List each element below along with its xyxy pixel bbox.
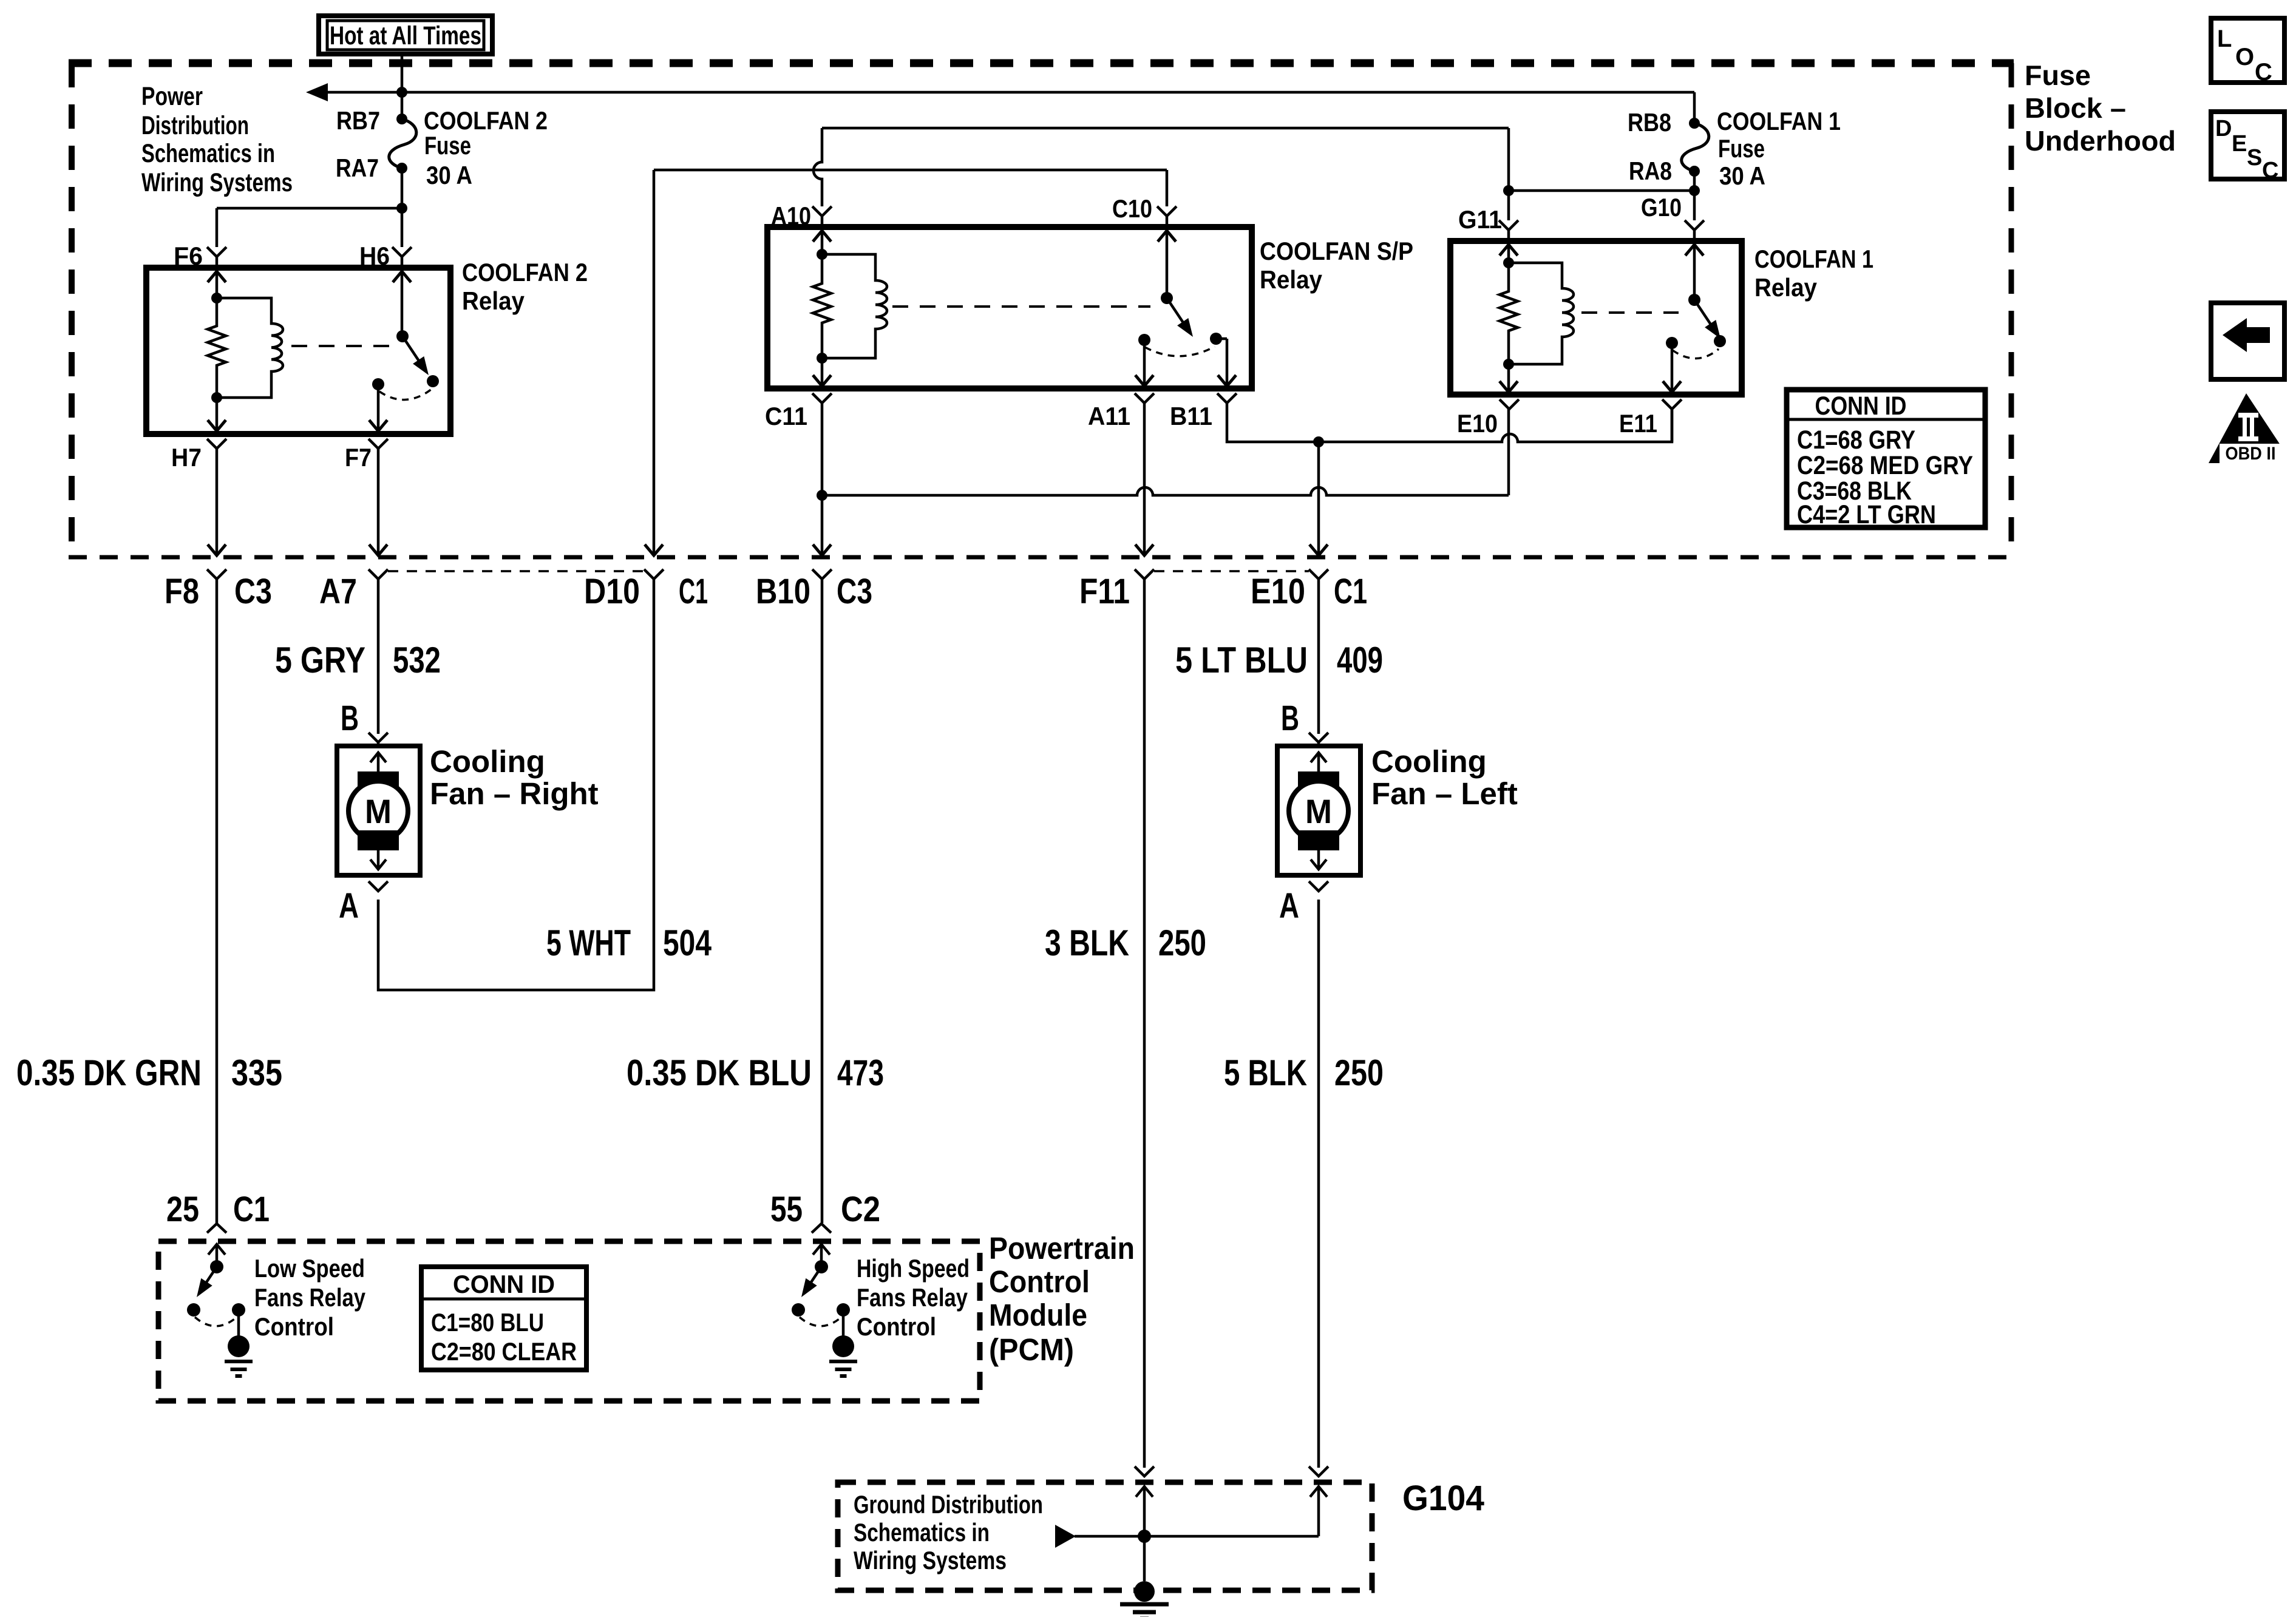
relay K1 dashed actuator link bbox=[1581, 311, 1679, 314]
svg-text:COOLFAN 1: COOLFAN 1 bbox=[1717, 107, 1841, 135]
terminal exit F8 bbox=[207, 569, 226, 579]
wire hot feed bbox=[401, 54, 404, 119]
relay K3 switch dashed travel arc bbox=[1145, 347, 1215, 356]
motor M2 Cooling Fan Left box bbox=[1277, 746, 1360, 875]
exit arrow into dashed edge at E10 C1 bbox=[1309, 544, 1328, 555]
arrow ground distribution bbox=[1055, 1525, 1076, 1548]
svg-text:250: 250 bbox=[1334, 1053, 1384, 1093]
svg-text:Low Speed: Low Speed bbox=[254, 1254, 365, 1283]
node ground bus junction bbox=[1138, 1530, 1151, 1543]
wire RA7 down to H6 bbox=[401, 168, 404, 247]
svg-text:COOLFAN 2: COOLFAN 2 bbox=[462, 258, 588, 286]
sidebar OBD II triangle bbox=[2209, 393, 2292, 463]
svg-text:55: 55 bbox=[770, 1190, 803, 1229]
svg-text:Schematics in: Schematics in bbox=[854, 1518, 990, 1547]
svg-text:5 LT BLU: 5 LT BLU bbox=[1175, 640, 1308, 680]
switch contact right node bbox=[837, 1303, 850, 1317]
svg-text:C2=68 MED GRY: C2=68 MED GRY bbox=[1797, 451, 1973, 480]
wire F8 to PCM 25 bbox=[216, 579, 219, 1223]
node G11 junction bbox=[1503, 185, 1514, 196]
svg-text:COOLFAN 2: COOLFAN 2 bbox=[424, 106, 548, 135]
PCM entry arrow bbox=[216, 1246, 219, 1267]
PCM dashed box bbox=[158, 1241, 980, 1401]
terminal C11 bbox=[812, 393, 832, 403]
relay K1 switch contact NO node bbox=[1714, 335, 1726, 347]
motor brush block bottom bbox=[358, 830, 399, 850]
svg-text:A10: A10 bbox=[771, 202, 811, 230]
svg-text:G104: G104 bbox=[1402, 1479, 1484, 1518]
svg-text:Fan – Right: Fan – Right bbox=[430, 776, 599, 811]
wire E11 drop bbox=[1671, 409, 1674, 442]
ground dot bbox=[832, 1335, 854, 1357]
svg-text:Fans Relay: Fans Relay bbox=[254, 1283, 366, 1312]
svg-text:F11: F11 bbox=[1079, 572, 1130, 611]
wire F6 riser bbox=[216, 208, 219, 247]
svg-text:Schematics in: Schematics in bbox=[141, 139, 275, 168]
sidebar LOC box bbox=[2211, 18, 2284, 83]
wire A10 feed from fuse1 bbox=[822, 127, 1509, 130]
svg-text:S: S bbox=[2247, 145, 2262, 171]
motor brush block top bbox=[358, 771, 399, 792]
wire G11 riser bbox=[1507, 128, 1510, 220]
wire E10 relay drop bbox=[1507, 409, 1510, 495]
switch node bbox=[210, 1260, 223, 1273]
wire F11 to G104 bbox=[1143, 579, 1146, 1468]
wire D10 to C10 link bbox=[654, 169, 1167, 172]
svg-text:B10: B10 bbox=[756, 572, 810, 611]
G104 dashed box bbox=[838, 1482, 1372, 1590]
relay K2 dashed actuator link bbox=[291, 345, 392, 347]
svg-text:Underhood: Underhood bbox=[2025, 125, 2176, 157]
svg-text:Fuse: Fuse bbox=[1718, 134, 1765, 163]
svg-text:0.35 DK BLU: 0.35 DK BLU bbox=[627, 1053, 812, 1093]
svg-text:25: 25 bbox=[166, 1190, 199, 1229]
fuse F1 COOLFAN 2 terminal RB7 dot bbox=[396, 114, 407, 124]
sidebar DESC box bbox=[2211, 112, 2284, 179]
terminal fan A bbox=[369, 881, 388, 891]
terminal fan A bbox=[1309, 881, 1328, 891]
relay K2 switch common node bbox=[396, 330, 409, 342]
wire RA8 down to G10 bbox=[1693, 171, 1696, 220]
fuse F1 COOLFAN 2 element bbox=[389, 119, 416, 168]
svg-text:Block –: Block – bbox=[2025, 92, 2126, 124]
relay K3 resistor bbox=[813, 254, 831, 358]
switch dashed travel arc bbox=[800, 1317, 842, 1326]
svg-text:30 A: 30 A bbox=[426, 161, 472, 189]
wire ground bus bbox=[1075, 1535, 1319, 1538]
relay K3 dashed actuator link bbox=[892, 305, 1150, 308]
motor brush arrow top bbox=[377, 753, 380, 773]
pin arrow F6 bbox=[216, 271, 219, 298]
wire E10 C1 drop bbox=[1317, 442, 1320, 554]
svg-text:C: C bbox=[2262, 158, 2278, 183]
PCM entry arrow bbox=[820, 1246, 823, 1267]
svg-text:250: 250 bbox=[1158, 923, 1206, 963]
svg-text:C1=80 BLU: C1=80 BLU bbox=[431, 1308, 544, 1337]
fuse F2 COOLFAN 1 element bbox=[1682, 123, 1709, 171]
thin dashed connector line A7-D10 bbox=[388, 570, 644, 572]
relay K1 switch common node bbox=[1688, 294, 1700, 306]
svg-text:Fuse: Fuse bbox=[2025, 59, 2091, 91]
pin arrow H7 bbox=[216, 398, 219, 431]
svg-text:5 GRY: 5 GRY bbox=[275, 640, 365, 680]
svg-text:504: 504 bbox=[663, 923, 712, 963]
svg-text:Module: Module bbox=[989, 1298, 1087, 1332]
fuse block underhood dashed outline right edge bbox=[2009, 63, 2014, 557]
terminal F7 bbox=[369, 439, 388, 449]
pin arrow E10 bbox=[1507, 364, 1510, 392]
svg-text:A: A bbox=[339, 886, 359, 926]
svg-text:M: M bbox=[1305, 792, 1332, 830]
wire A11 drop bbox=[1143, 403, 1146, 554]
terminal exit E10 C1 bbox=[1309, 569, 1328, 579]
node C11 junction bbox=[817, 490, 827, 501]
terminal exit F11 bbox=[1135, 569, 1154, 579]
svg-text:Wiring Systems: Wiring Systems bbox=[141, 168, 293, 197]
wire fan right A 5 WHT loop bbox=[378, 579, 654, 990]
svg-text:RA8: RA8 bbox=[1629, 157, 1672, 185]
relay K1 switch dashed travel arc bbox=[1673, 349, 1719, 359]
pin arrow B11 bbox=[1218, 375, 1236, 386]
terminal PCM 25 bbox=[207, 1224, 226, 1233]
pin arrow A10 bbox=[821, 231, 824, 254]
relay K3 COOLFAN S/P box bbox=[767, 227, 1252, 388]
svg-text:Relay: Relay bbox=[1754, 273, 1818, 302]
svg-text:C2: C2 bbox=[841, 1190, 880, 1229]
motor circle bbox=[348, 781, 408, 841]
wire hot bus bbox=[327, 91, 1694, 94]
svg-text:C3: C3 bbox=[234, 572, 272, 611]
exit arrow into dashed edge at A7 bbox=[369, 544, 387, 555]
svg-text:A: A bbox=[1279, 886, 1299, 926]
exit arrow into dashed edge at D10 bbox=[645, 544, 663, 555]
wire D10 riser bbox=[653, 170, 656, 554]
terminal exit B10 bbox=[812, 569, 832, 579]
relay K2 coil bottom node bbox=[211, 392, 222, 403]
svg-text:Power: Power bbox=[141, 82, 203, 111]
svg-text:Control: Control bbox=[857, 1312, 936, 1341]
motor brush block bottom bbox=[1298, 830, 1339, 850]
relay K1 coil bottom node bbox=[1503, 359, 1514, 370]
svg-text:335: 335 bbox=[231, 1053, 282, 1093]
G104 entry arrow E10 bbox=[1310, 1486, 1327, 1497]
svg-text:E: E bbox=[2232, 131, 2247, 157]
svg-text:COOLFAN 1: COOLFAN 1 bbox=[1754, 245, 1873, 273]
svg-text:B11: B11 bbox=[1170, 402, 1212, 430]
svg-text:O: O bbox=[2235, 44, 2254, 70]
svg-text:30 A: 30 A bbox=[1719, 161, 1765, 190]
wire B10 to PCM 55 bbox=[821, 579, 824, 1223]
svg-text:5 WHT: 5 WHT bbox=[546, 923, 631, 963]
svg-text:C1: C1 bbox=[679, 572, 708, 611]
pin arrow F7 bbox=[377, 384, 380, 431]
relay K1 coil top node bbox=[1503, 257, 1514, 268]
PCM CONN ID box bbox=[421, 1267, 586, 1370]
svg-text:3 BLK: 3 BLK bbox=[1045, 923, 1129, 963]
svg-text:Hot at All Times: Hot at All Times bbox=[330, 21, 481, 50]
svg-text:RB7: RB7 bbox=[336, 106, 380, 135]
svg-text:C3: C3 bbox=[837, 572, 872, 611]
svg-text:Control: Control bbox=[989, 1264, 1090, 1299]
svg-text:473: 473 bbox=[837, 1053, 884, 1093]
node E10 C1 drop junction bbox=[1313, 436, 1324, 447]
svg-text:High Speed: High Speed bbox=[857, 1254, 970, 1283]
svg-text:C1=68 GRY: C1=68 GRY bbox=[1797, 425, 1915, 455]
svg-text:5 BLK: 5 BLK bbox=[1224, 1053, 1307, 1093]
fuse F1 COOLFAN 2 terminal RA7 dot bbox=[396, 163, 407, 174]
svg-text:E10: E10 bbox=[1251, 572, 1305, 611]
wire A7 to fan right B bbox=[377, 579, 380, 734]
wire hot bus corner to RB8 bbox=[1693, 92, 1696, 123]
svg-text:C: C bbox=[2255, 59, 2272, 86]
node RA8 G10 junction bbox=[1689, 185, 1700, 196]
wire G11 G10 link bbox=[1509, 189, 1694, 192]
pin arrow E11 bbox=[1671, 343, 1674, 392]
terminal PCM 55 bbox=[812, 1224, 831, 1233]
svg-text:C1: C1 bbox=[1334, 572, 1367, 611]
pin arrow G10 bbox=[1693, 245, 1696, 300]
svg-text:C2=80 CLEAR: C2=80 CLEAR bbox=[431, 1337, 577, 1366]
svg-text:OBD II: OBD II bbox=[2226, 444, 2276, 464]
svg-text:B: B bbox=[341, 699, 359, 738]
svg-text:Wiring Systems: Wiring Systems bbox=[854, 1546, 1007, 1575]
motor brush block top bbox=[1298, 771, 1339, 792]
relay K1 coil bbox=[1509, 263, 1574, 364]
thin dashed connector line F11-E10 bbox=[1154, 570, 1309, 572]
sidebar OBD II pillar bbox=[2238, 413, 2258, 441]
relay K2 COOLFAN 2 box bbox=[146, 268, 450, 434]
ground G104 dot bbox=[1134, 1581, 1155, 1602]
svg-text:E10: E10 bbox=[1457, 409, 1498, 438]
relay K1 COOLFAN 1 box bbox=[1450, 241, 1742, 395]
ground symbol bbox=[225, 1360, 253, 1363]
relay K2 switch contact NO node bbox=[427, 375, 439, 387]
svg-text:F6: F6 bbox=[174, 242, 203, 270]
svg-text:0.35 DK GRN: 0.35 DK GRN bbox=[16, 1053, 202, 1093]
terminal G10 bbox=[1685, 220, 1704, 239]
wire C10 riser bbox=[1166, 170, 1169, 206]
svg-text:C4=2 LT GRN: C4=2 LT GRN bbox=[1797, 500, 1936, 529]
ground dot bbox=[228, 1335, 250, 1357]
terminal H7 bbox=[207, 439, 226, 449]
relay K3 coil bottom node bbox=[817, 353, 827, 364]
svg-text:G10: G10 bbox=[1641, 193, 1682, 222]
wire junction to F6 riser bbox=[217, 207, 402, 210]
motor M1 Cooling Fan Right box bbox=[337, 746, 420, 875]
terminal F6 bbox=[207, 247, 226, 265]
svg-text:F8: F8 bbox=[165, 572, 199, 611]
wire contact to ground bbox=[237, 1310, 240, 1336]
wire fan left A to G104 bbox=[1317, 900, 1320, 1468]
svg-text:Fuse: Fuse bbox=[424, 131, 471, 160]
relay K1 switch arm bbox=[1694, 300, 1715, 331]
svg-text:Relay: Relay bbox=[462, 286, 525, 315]
svg-text:Cooling: Cooling bbox=[430, 744, 545, 779]
G104 entry arrow F11 bbox=[1136, 1486, 1153, 1497]
relay K3 switch common node bbox=[1161, 292, 1173, 304]
svg-text:Relay: Relay bbox=[1260, 265, 1323, 294]
terminal A10 bbox=[812, 206, 832, 225]
wire A10 riser with hop bbox=[813, 128, 822, 206]
switch arm with arrow bbox=[807, 1267, 821, 1289]
exit arrow into dashed edge at B10 bbox=[813, 544, 831, 555]
relay K2 switch contact F7 node bbox=[372, 378, 384, 390]
exit arrow into dashed edge at F11 bbox=[1135, 544, 1153, 555]
fuse block CONN ID box bbox=[1787, 390, 1985, 527]
switch arm with arrow bbox=[202, 1267, 217, 1289]
switch node bbox=[815, 1260, 828, 1273]
svg-text:532: 532 bbox=[393, 640, 441, 680]
svg-text:(PCM): (PCM) bbox=[989, 1332, 1074, 1367]
relay K3 switch contact B11 node bbox=[1210, 333, 1222, 345]
svg-text:G11: G11 bbox=[1458, 205, 1502, 234]
ground symbol bbox=[829, 1360, 857, 1363]
motor brush arrow top bbox=[1317, 753, 1320, 773]
switch contact left node bbox=[187, 1303, 200, 1317]
svg-text:RB8: RB8 bbox=[1628, 108, 1671, 137]
fuse F2 COOLFAN 1 terminal RA8 dot bbox=[1689, 166, 1700, 177]
wire contact to ground bbox=[842, 1310, 845, 1336]
svg-text:Powertrain: Powertrain bbox=[989, 1231, 1135, 1266]
relay K2 switch dashed travel arc bbox=[379, 389, 432, 400]
svg-text:Cooling: Cooling bbox=[1371, 744, 1487, 779]
fuse F2 COOLFAN 1 terminal RB8 dot bbox=[1689, 118, 1700, 129]
node hot bus junction bbox=[396, 87, 407, 98]
terminal B11 bbox=[1217, 393, 1237, 403]
svg-text:Distribution: Distribution bbox=[141, 111, 249, 140]
terminal G11 bbox=[1499, 220, 1518, 239]
svg-text:RA7: RA7 bbox=[336, 154, 379, 182]
wire B11 contact to drop bbox=[1216, 337, 1227, 341]
ground G104 symbol bbox=[1120, 1602, 1169, 1607]
arrow hot bus left bbox=[306, 83, 328, 101]
sidebar back arrow box bbox=[2211, 303, 2284, 379]
node RA7 F6 junction bbox=[396, 203, 407, 214]
pin arrow A11 bbox=[1143, 340, 1146, 386]
svg-text:E11: E11 bbox=[1619, 409, 1657, 438]
pin arrow C11 bbox=[821, 358, 824, 386]
terminal exit A7 bbox=[369, 569, 388, 579]
relay K2 resistor bbox=[208, 298, 226, 398]
terminal G104 E10 entry bbox=[1309, 1466, 1328, 1476]
wire C11 drop bbox=[821, 403, 824, 554]
wire H7 drop to exit bbox=[216, 447, 219, 554]
terminal fan B bbox=[1309, 733, 1328, 747]
wire C11 to E10 relay with hops bbox=[822, 487, 1509, 495]
relay K3 switch arm bbox=[1167, 298, 1187, 329]
sidebar OBD II band bbox=[2220, 444, 2294, 463]
fuse block underhood dashed outline left edge bbox=[69, 63, 75, 557]
svg-text:A11: A11 bbox=[1088, 402, 1130, 430]
Hot at All Times label box bbox=[319, 16, 492, 54]
motor circle bbox=[1289, 781, 1348, 841]
terminal fan B bbox=[369, 733, 388, 747]
relay K1 resistor bbox=[1500, 263, 1518, 364]
svg-text:D10: D10 bbox=[584, 572, 640, 611]
relay K2 coil top node bbox=[211, 293, 222, 303]
svg-text:CONN ID: CONN ID bbox=[453, 1270, 555, 1298]
switch contact left node bbox=[792, 1303, 805, 1317]
relay K3 switch contact A11 node bbox=[1138, 334, 1150, 346]
svg-text:H7: H7 bbox=[171, 443, 202, 472]
wire B11 to E11 with E10 hop bbox=[1227, 403, 1672, 442]
switch dashed travel arc bbox=[195, 1317, 237, 1326]
svg-text:C10: C10 bbox=[1112, 194, 1152, 223]
svg-text:Ground Distribution: Ground Distribution bbox=[854, 1490, 1043, 1519]
svg-text:CONN ID: CONN ID bbox=[1815, 392, 1907, 421]
motor brush arrow bottom bbox=[1317, 849, 1320, 869]
svg-text:H6: H6 bbox=[359, 242, 390, 270]
svg-text:D: D bbox=[2215, 116, 2232, 141]
fuse block underhood dashed outline bottom edge bbox=[69, 555, 2014, 560]
relay K3 coil bbox=[822, 254, 887, 358]
relay K2 switch arm bbox=[402, 336, 423, 367]
wire E10 C1 to fan left B bbox=[1317, 579, 1320, 734]
sidebar back arrow bbox=[2223, 318, 2270, 352]
svg-text:F7: F7 bbox=[345, 443, 372, 472]
svg-text:C1: C1 bbox=[233, 1190, 270, 1229]
svg-text:Fan – Left: Fan – Left bbox=[1371, 776, 1518, 811]
exit arrow into dashed edge at F8 bbox=[208, 544, 226, 555]
svg-text:COOLFAN S/P: COOLFAN S/P bbox=[1260, 237, 1413, 265]
relay K1 switch contact E11 node bbox=[1666, 337, 1678, 349]
svg-text:M: M bbox=[365, 792, 392, 830]
terminal A11 bbox=[1135, 393, 1154, 403]
wire F7 drop to exit bbox=[377, 447, 380, 554]
relay K3 coil top node bbox=[817, 249, 827, 260]
svg-text:A7: A7 bbox=[319, 572, 357, 611]
terminal C10 bbox=[1157, 206, 1177, 225]
motor brush arrow bottom bbox=[377, 849, 380, 869]
svg-text:Control: Control bbox=[254, 1312, 334, 1341]
svg-text:C11: C11 bbox=[765, 402, 807, 430]
terminal exit D10 bbox=[644, 569, 664, 579]
switch contact right node bbox=[232, 1303, 245, 1317]
svg-text:409: 409 bbox=[1337, 640, 1383, 680]
pin arrow G11 bbox=[1507, 245, 1510, 263]
svg-text:L: L bbox=[2217, 25, 2232, 52]
pin arrow H6 bbox=[401, 271, 404, 336]
fuse block underhood dashed outline top edge bbox=[69, 59, 2014, 67]
pin arrow C10 bbox=[1166, 231, 1169, 298]
terminal E10 bbox=[1500, 399, 1519, 409]
svg-text:B: B bbox=[1281, 699, 1299, 738]
terminal G104 F11 entry bbox=[1135, 1466, 1154, 1476]
terminal E11 bbox=[1662, 399, 1682, 409]
terminal H6 bbox=[392, 247, 412, 265]
svg-text:Fans Relay: Fans Relay bbox=[857, 1283, 968, 1312]
relay K2 coil bbox=[217, 298, 283, 398]
